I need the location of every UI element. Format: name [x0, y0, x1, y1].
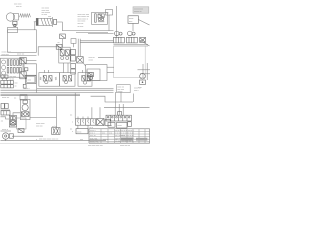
wire [22, 64, 24, 72]
label box O2 [117, 122, 127, 128]
svg-text:xxx: xxx [28, 80, 32, 82]
wire [25, 74, 37, 76]
wire [26, 64, 36, 93]
manifold box M1 [86, 65, 107, 81]
svg-text:xxx: xxx [129, 21, 133, 23]
valve bank VB1 [1, 58, 25, 77]
relay box K1 [106, 10, 113, 16]
title block table [89, 129, 150, 143]
wire stems [2, 78, 4, 80]
svg-text:x xx: x xx [109, 133, 112, 135]
valve V9 [18, 129, 24, 133]
svg-text:xxxx xx: xxxx xx [134, 87, 141, 89]
control valve assembly CV2 [59, 73, 75, 87]
wire to tank [107, 66, 114, 68]
svg-text:xx: xx [58, 42, 60, 44]
small component [23, 84, 26, 88]
svg-text:xxx xx: xxx xx [78, 23, 85, 25]
svg-text:xx: xx [15, 85, 17, 87]
wire stems O row [114, 107, 116, 115]
wire bus 2 [1, 89, 114, 91]
svg-text:xxx xxx: xxx xxx [36, 125, 43, 127]
svg-text:xx: xx [14, 98, 17, 100]
reservoir R1 (wide) [8, 30, 37, 53]
page edge line [0, 143, 88, 145]
wire step [91, 96, 133, 102]
valve pair left [1, 104, 4, 109]
flat box left [1, 111, 10, 115]
check valves right column [71, 49, 76, 54]
wire buses G [80, 40, 113, 42]
svg-text:xx x: xx x [102, 133, 105, 135]
valve V6 [88, 73, 94, 77]
wire stems [63, 63, 65, 73]
svg-text:xxxx: xxxx [121, 135, 125, 137]
svg-text:xxx: xxx [48, 16, 51, 18]
sensor pair [1, 75, 4, 78]
svg-text:xxx xxxx xxx xxx: xxx xxxx xxx xxx [88, 145, 103, 147]
wire bus bottom [104, 106, 150, 108]
label box O1 [108, 122, 115, 127]
valve strip VS2 [1, 85, 14, 88]
svg-text:xx xxx: xx xxx [42, 14, 48, 16]
valve V10 [105, 120, 111, 126]
tank T1 [114, 46, 146, 77]
svg-text:xxxx xx: xxxx xx [17, 53, 25, 55]
valve V4 [65, 50, 69, 56]
terminal row O [106, 115, 131, 121]
reservoir R1 neck [8, 27, 18, 32]
valve strip VS1 [1, 80, 14, 84]
pipe manifold line [88, 33, 114, 35]
wire diagonal [83, 63, 85, 66]
wire [1, 109, 11, 111]
motor MTR [140, 73, 146, 79]
svg-text:xx xxx: xx xxx [78, 26, 85, 28]
wire [14, 25, 16, 28]
rod clevis [51, 17, 53, 27]
wire [133, 94, 135, 103]
cylinder CYL1 [36, 18, 52, 25]
pilot valve on F corner [56, 44, 62, 49]
note box D (gray) [133, 7, 149, 13]
svg-text:xxxxx xx: xxxxx xx [134, 11, 142, 13]
svg-text:xx xxx x xx: xx xxx x xx [90, 142, 99, 144]
label box O3 [128, 122, 132, 127]
svg-text:xxx xxxx xxxx xxxx xx: xxx xxxx xxxx xxxx xx [39, 139, 58, 141]
wire bus 1 [37, 87, 114, 89]
svg-text:xxxx x: xxxx x [2, 129, 9, 131]
svg-text:xx: xx [106, 12, 109, 15]
svg-text:xxxx: xxxx [77, 131, 82, 133]
valve V5 [77, 57, 84, 63]
valve block on pump P1 [14, 14, 19, 21]
valve group box C [92, 12, 108, 24]
svg-text:xxx: xxx [109, 125, 113, 127]
wire [5, 139, 7, 141]
wire verticals G [77, 39, 79, 56]
gauge box G1 [128, 16, 138, 24]
pump unit PM1 [115, 31, 120, 36]
valve V2 [98, 14, 101, 18]
cooler HX1 [52, 128, 60, 135]
pilot valve small [60, 34, 66, 39]
wire vertical [120, 92, 122, 102]
svg-text:xxxx xxx xx: xxxx xxx xx [120, 145, 130, 147]
wire to tank [98, 56, 114, 58]
svg-text:xx x: xx x [90, 127, 94, 129]
svg-text:xxx xx: xxx xx [16, 6, 22, 8]
svg-text:xxx xx: xxx xx [103, 139, 109, 141]
wire stems [77, 125, 79, 129]
wire [132, 23, 134, 31]
inline valve [25, 68, 28, 71]
wire bus [76, 31, 108, 33]
control valve assembly CV1 [39, 73, 60, 87]
svg-text:xx xxx x xx xxxx xxx xx: xx xxx x xx xxxx xxx xx [115, 140, 133, 142]
wire [24, 96, 26, 100]
svg-text:xxxx x: xxxx x [24, 88, 30, 90]
svg-text:xxx xxx: xxx xxx [2, 54, 10, 56]
wire bus 3 [1, 92, 114, 94]
wire vertical [74, 93, 76, 119]
left IO box 2 [26, 76, 37, 84]
note box K2 [117, 85, 131, 93]
junction box small [118, 112, 122, 116]
svg-text:xxxx: xxxx [117, 125, 122, 127]
svg-text:xxxx: xxxx [89, 59, 94, 61]
valve V3 [60, 50, 64, 56]
wire ticks [77, 117, 79, 119]
wire vertical [91, 107, 93, 118]
svg-text:xx: xx [115, 139, 117, 141]
frame box [17, 118, 27, 129]
wire from cylinder [57, 22, 114, 31]
wire [12, 135, 43, 137]
wire diagonal [138, 20, 149, 26]
pump P2 [2, 133, 8, 139]
svg-text:xxx x: xxx x [134, 90, 139, 92]
pump unit PU1 [20, 99, 30, 119]
svg-text:xxxx xx: xxxx xx [2, 97, 10, 99]
wire bus 4 [1, 93, 81, 95]
pump unit PM2 [128, 31, 133, 36]
svg-text:x: x [72, 131, 73, 133]
pump P1 [6, 13, 14, 21]
valve assembly VA1 [9, 116, 16, 128]
pilot box F [59, 47, 70, 63]
svg-text:xx: xx [1, 121, 4, 123]
svg-text:xx: xx [70, 115, 73, 117]
relief valve X box [140, 37, 146, 42]
wire stems [82, 70, 84, 73]
wire vertical [114, 92, 116, 107]
wire vertical [55, 96, 57, 128]
wire [108, 15, 110, 31]
solenoid bars Y1 [95, 14, 97, 22]
wire vertical [116, 6, 118, 38]
svg-text:xxxxx: xxxxx [117, 91, 122, 93]
wire F feed [38, 47, 59, 56]
filter F2 [20, 72, 26, 79]
separator line [1, 140, 107, 142]
junction cross wires [142, 64, 144, 78]
coupling C1 [13, 21, 17, 25]
filter F1 [20, 57, 26, 63]
svg-text:x: x [36, 139, 37, 141]
svg-text:xxx: xxx [80, 139, 83, 141]
wire in [1, 117, 10, 119]
title block dense text [121, 138, 133, 141]
wire [1, 130, 12, 132]
wire bus 5 [1, 95, 81, 97]
valve row N [75, 119, 95, 125]
label text pump [20, 14, 31, 17]
wire bus E [1, 55, 37, 57]
svg-text:xxxx: xxxx [129, 18, 134, 20]
wire diagonal right [140, 40, 150, 46]
svg-text:xxx: xxx [15, 82, 18, 84]
wire stems [44, 70, 46, 73]
control valve assembly CV3 [78, 73, 92, 87]
label box N2 [76, 129, 88, 134]
wire top [13, 113, 20, 116]
small box [20, 95, 27, 100]
manifold lines [114, 44, 149, 46]
wire vertical [99, 107, 101, 118]
relief valve RV1 [97, 118, 104, 125]
wire [30, 117, 56, 119]
small box [71, 39, 76, 44]
svg-text:x: x [72, 122, 73, 124]
